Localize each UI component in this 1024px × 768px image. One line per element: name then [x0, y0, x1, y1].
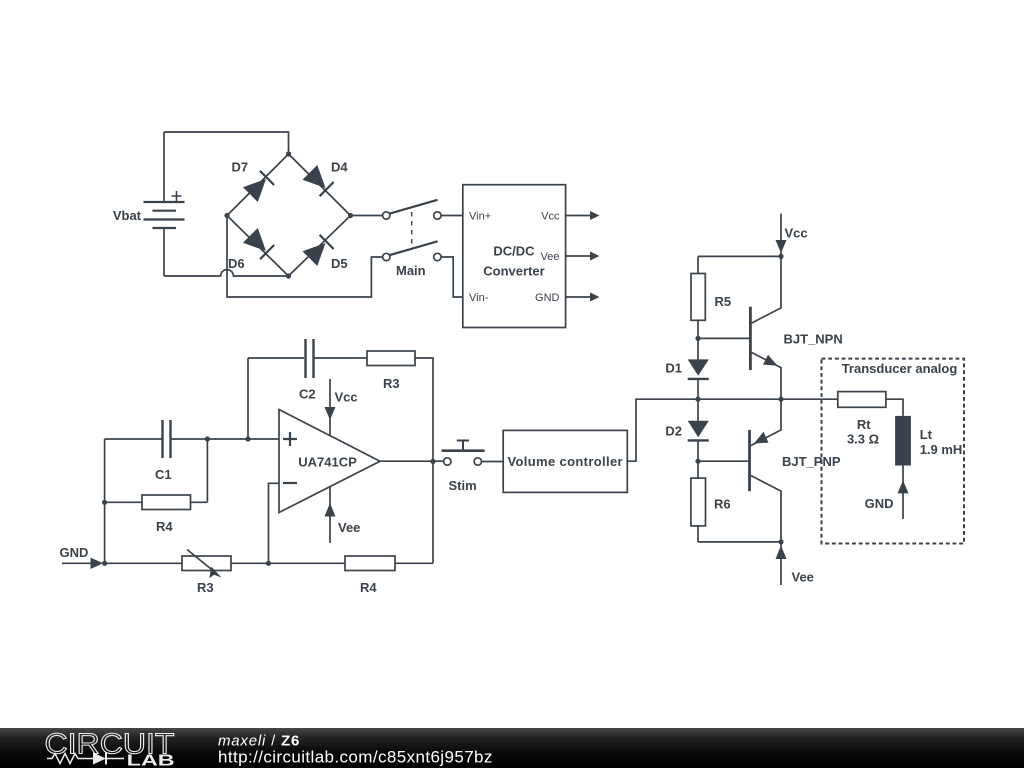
svg-text:R5: R5: [715, 294, 732, 309]
box Transducer analog (dashed): [822, 359, 965, 544]
battery Vbat: [144, 132, 185, 276]
transistor Q1 BJT_NPN: [750, 256, 781, 399]
wire Rt to Lt: [886, 399, 903, 416]
capacitor C2: [306, 339, 314, 378]
node bridge bottom: [286, 273, 291, 278]
switch Main pole 1: [383, 200, 442, 219]
svg-text:LAB: LAB: [127, 753, 175, 768]
wire Stim to volume controller: [482, 461, 504, 463]
node bridge right: [348, 213, 353, 218]
svg-text:Vin-: Vin-: [469, 292, 489, 304]
output arrow GND: [566, 293, 600, 302]
net flag GND input arrow: [62, 558, 103, 569]
svg-text:GND: GND: [60, 545, 89, 560]
wire R3 right and down to output: [415, 358, 433, 563]
node - input junction: [266, 561, 271, 566]
output arrow Vee: [566, 252, 600, 261]
wire feedback top left: [248, 357, 304, 359]
resistor R5: [691, 256, 705, 338]
diode D4: [303, 165, 334, 196]
switch Main pole 2: [383, 241, 442, 260]
svg-text:Vee: Vee: [792, 570, 814, 585]
svg-text:Vin+: Vin+: [469, 211, 491, 223]
svg-text:D2: D2: [665, 424, 682, 439]
svg-text:http://circuitlab.com/c85xnt6j: http://circuitlab.com/c85xnt6j957bz: [218, 748, 493, 767]
wire GND rail segment 1: [105, 562, 182, 564]
DC/DC converter box U: [463, 185, 566, 328]
wire feedback vertical: [247, 358, 249, 439]
svg-text:Vee: Vee: [541, 251, 560, 263]
wire top rail: [698, 255, 781, 257]
diode D7: [243, 171, 274, 202]
diode D1: [688, 338, 709, 399]
net flag Vcc right: [776, 214, 787, 257]
switch Main gang link (dashed): [411, 212, 413, 246]
svg-text:Lt: Lt: [920, 427, 933, 442]
svg-text:C1: C1: [155, 467, 172, 482]
svg-text:D5: D5: [331, 256, 348, 271]
wire PNP base: [698, 460, 748, 462]
wire GND rail segment 2: [231, 562, 345, 564]
svg-text:R3: R3: [383, 376, 400, 391]
op-amp - input symbol: [283, 482, 297, 484]
wire bridge right to switch: [351, 215, 383, 217]
resistor R6: [691, 461, 706, 542]
node C1/R4 junction: [205, 436, 210, 441]
wire C1 right to op-amp + input: [171, 438, 279, 440]
wire switch2 to DC/DC Vin-: [441, 257, 463, 297]
wire left vertical C1/R4 branch: [104, 439, 106, 563]
node feedback tap: [245, 436, 250, 441]
svg-text:R4: R4: [156, 519, 173, 534]
node bottom rail corner: [778, 539, 783, 544]
node driver output: [778, 397, 783, 402]
capacitor C1: [163, 420, 171, 458]
svg-text:Stim: Stim: [449, 478, 477, 493]
wire - input vertical: [269, 483, 280, 563]
node top rail corner: [778, 254, 783, 259]
wire driver output to Rt: [698, 398, 838, 400]
wire battery bottom to bridge bottom (hop over crossing): [164, 270, 289, 276]
resistor R4 lower: [345, 556, 395, 571]
svg-text:Main: Main: [396, 263, 426, 278]
resistor R4 upper: [105, 439, 208, 510]
wire battery top to bridge: [164, 132, 289, 154]
svg-text:Transducer analog: Transducer analog: [842, 361, 958, 376]
svg-text:UA741CP: UA741CP: [298, 454, 357, 469]
svg-text:Volume controller: Volume controller: [507, 454, 623, 469]
node R4 tap: [102, 500, 107, 505]
net flag GND transducer: [898, 466, 909, 520]
op-amp + input symbol: [283, 432, 297, 446]
pushbutton Stim: [442, 441, 485, 466]
inductor Lt: [895, 416, 911, 466]
resistor R3 feedback: [367, 351, 415, 366]
transistor Q2 BJT_PNP: [750, 399, 782, 542]
svg-text:Vcc: Vcc: [541, 211, 560, 223]
wire C1 left lead: [105, 438, 162, 440]
svg-text:R3: R3: [197, 580, 214, 595]
svg-text:Vcc: Vcc: [785, 226, 808, 241]
svg-text:R6: R6: [714, 497, 731, 512]
node bridge left: [224, 213, 229, 218]
diode D5: [303, 235, 334, 266]
svg-text:Rt: Rt: [857, 417, 871, 432]
footer bar: [0, 728, 1024, 768]
op-amp U1 triangle: [279, 410, 380, 513]
svg-text:3.3 Ω: 3.3 Ω: [847, 431, 879, 446]
wire GND rail segment 3: [395, 562, 433, 564]
op-amp Vcc power pin flag: [325, 379, 336, 435]
diode bridge frame: [227, 154, 351, 276]
node output junction: [430, 459, 435, 464]
wire C2 to R3: [314, 357, 367, 359]
node driver mid top: [695, 397, 700, 402]
svg-text:D1: D1: [665, 361, 682, 376]
net flag Vee right: [776, 542, 787, 585]
node bridge top: [286, 151, 291, 156]
node D2/R6/base junction: [695, 459, 700, 464]
potentiometer R3 (variable): [182, 550, 231, 579]
wire switch1 to DC/DC Vin+: [441, 215, 463, 217]
svg-text:D4: D4: [331, 160, 348, 175]
wire bridge left down and to switch 2: [227, 216, 383, 298]
svg-text:GND: GND: [865, 496, 894, 511]
wire bottom rail: [698, 541, 781, 543]
node GND junction: [102, 561, 107, 566]
svg-text:D7: D7: [232, 160, 249, 175]
svg-text:Converter: Converter: [483, 264, 544, 279]
diode D6: [243, 228, 274, 259]
svg-text:D6: D6: [228, 256, 245, 271]
svg-text:Vee: Vee: [338, 520, 360, 535]
svg-text:C2: C2: [299, 387, 316, 402]
svg-text:R4: R4: [360, 580, 377, 595]
node R5/D1/base junction: [695, 336, 700, 341]
logo resistor-diode glyph: [47, 753, 124, 765]
op-amp Vee power pin flag: [325, 487, 336, 544]
svg-text:DC/DC: DC/DC: [493, 244, 535, 259]
box Volume controller: [503, 430, 627, 492]
svg-text:1.9 mH: 1.9 mH: [920, 442, 963, 457]
wire op-amp output: [380, 460, 444, 462]
svg-text:Vbat: Vbat: [113, 208, 142, 223]
resistor Rt: [838, 392, 886, 408]
wire NPN base: [698, 337, 749, 339]
svg-text:GND: GND: [535, 292, 560, 304]
svg-text:BJT_NPN: BJT_NPN: [784, 331, 843, 346]
svg-text:BJT_PNP: BJT_PNP: [782, 454, 841, 469]
wire volume controller output up to driver node: [627, 399, 698, 461]
svg-text:Vcc: Vcc: [335, 390, 358, 405]
diode D2: [688, 399, 709, 461]
output arrow Vcc: [566, 211, 600, 220]
